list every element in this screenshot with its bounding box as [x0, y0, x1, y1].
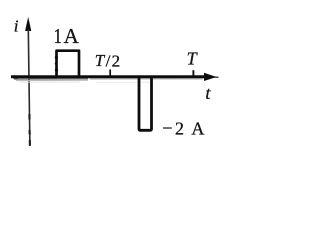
svg-text:T: T — [95, 51, 106, 70]
svg-text:2: 2 — [175, 118, 184, 138]
pulse 1 A — [57, 51, 80, 76]
svg-text:A: A — [191, 118, 204, 138]
svg-text:A: A — [64, 24, 80, 48]
tick at T — [192, 70, 194, 76]
svg-text:T: T — [187, 48, 199, 68]
time axis arrowhead — [204, 73, 217, 81]
svg-text:t: t — [205, 83, 211, 103]
time axis (horizontal) — [11, 75, 208, 78]
current axis arrowhead — [25, 17, 31, 31]
pulse left wall ink blobs — [55, 56, 58, 59]
pulse -2 A — [139, 77, 152, 130]
svg-text:i: i — [14, 16, 19, 35]
svg-text:−: − — [162, 118, 172, 138]
axis heavy ink segment near origin — [30, 76, 57, 79]
scan fuzz under axis — [14, 78, 88, 80]
svg-text:/: / — [106, 51, 111, 70]
vertical axis darker dashes (scan blobs) — [28, 114, 30, 120]
tick at T/2 — [109, 70, 111, 77]
svg-text:1: 1 — [54, 25, 62, 48]
svg-text:2: 2 — [112, 51, 121, 70]
current axis (vertical shaft) — [28, 29, 30, 146]
